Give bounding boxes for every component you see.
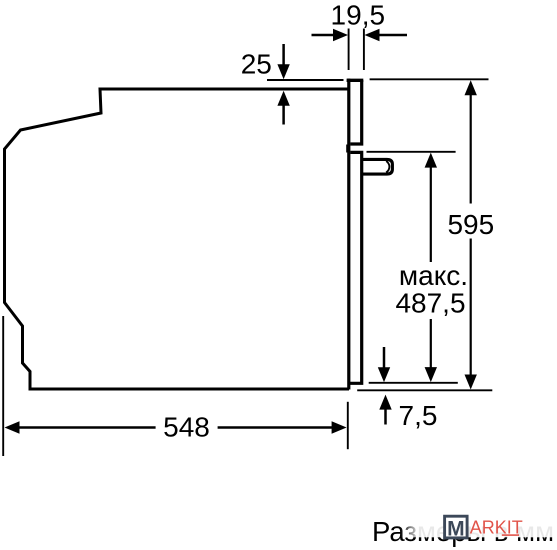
dim 25 ext line [267, 79, 344, 81]
door front notch [346, 145, 349, 153]
dim 25 lower arrow (up) [282, 104, 285, 125]
dim 19,5 ext line right [363, 29, 365, 71]
svg-text:19,5: 19,5 [331, 0, 386, 31]
svg-text:595: 595 [447, 209, 494, 240]
dim 7,5 upper arrow (down) [383, 347, 386, 369]
door front face [347, 79, 350, 390]
dim 7,5 lower arrow (up) [384, 409, 387, 425]
svg-text:548: 548 [163, 412, 210, 443]
dim 19,5 ext line left [348, 29, 350, 71]
dim 548 line right segment with right arrow [218, 426, 333, 428]
oven body outline [5, 89, 350, 389]
dim 595 top ext line [370, 78, 489, 80]
dim 19,5 left arrow [312, 34, 335, 37]
handle inner arc [386, 161, 389, 173]
svg-text:7,5: 7,5 [399, 400, 438, 431]
dim 595 bottom ext line [357, 389, 492, 391]
svg-text:487,5: 487,5 [395, 287, 465, 318]
watermark IT underline [502, 534, 519, 536]
dim 19,5 right arrow [379, 34, 407, 37]
dim 548 left ext line [2, 316, 4, 456]
dim 487,5 bottom ext line [369, 382, 458, 384]
dim 595 line upper segment with up arrow [470, 94, 472, 204]
dim 548 right ext line [347, 402, 349, 449]
door top edge [347, 79, 364, 82]
svg-text:M: M [447, 517, 465, 540]
dim 25 upper arrow (down) [282, 44, 285, 66]
door handle [362, 159, 393, 174]
dim 548 line left segment with left arrow [18, 426, 156, 428]
dim 487,5 top ext line [367, 151, 456, 153]
dim 487,5 line lower segment with down arrow [430, 319, 432, 369]
door back face lower section [349, 152, 362, 383]
dim 595 line lower segment with down arrow [470, 239, 472, 377]
dim 487,5 line upper segment with up arrow [430, 166, 432, 262]
svg-text:макс.: макс. [399, 260, 468, 291]
svg-text:25: 25 [241, 49, 272, 80]
watermark logo box [445, 516, 468, 538]
door back face upper section [350, 80, 361, 144]
